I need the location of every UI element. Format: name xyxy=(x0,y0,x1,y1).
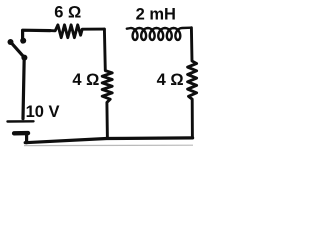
label 2 mH xyxy=(136,5,176,23)
label 4 ohm middle xyxy=(72,71,99,89)
svg-text:10 V: 10 V xyxy=(26,103,60,121)
node: switch bottom terminal dot xyxy=(21,55,27,61)
svg-text:4 Ω: 4 Ω xyxy=(72,71,99,89)
label 6 ohm xyxy=(54,4,81,22)
inductor L1 2mH coil xyxy=(127,28,191,40)
scan shadow line under bottom wire xyxy=(24,144,193,146)
wire right branch + resistor R3 4ohm xyxy=(188,28,197,138)
svg-text:4 Ω: 4 Ω xyxy=(157,71,184,89)
wire bottom xyxy=(25,138,192,143)
node: switch blade tip dot xyxy=(8,39,14,45)
wire battery to bottom xyxy=(25,133,28,142)
battery B1 long plate xyxy=(8,120,34,123)
node: switch top terminal dot xyxy=(20,38,26,44)
wire middle branch + resistor R2 4ohm xyxy=(102,29,112,138)
wire top-left segment xyxy=(23,30,50,42)
wire left vertical to battery xyxy=(23,58,24,119)
battery B1 short plate xyxy=(14,131,28,136)
resistor R1 6ohm zigzag xyxy=(50,25,104,38)
svg-text:2 mH: 2 mH xyxy=(136,5,176,23)
switch S1 blade xyxy=(11,42,25,58)
label 4 ohm right xyxy=(157,71,184,89)
label 10 V xyxy=(26,103,60,121)
svg-text:6 Ω: 6 Ω xyxy=(54,4,81,22)
